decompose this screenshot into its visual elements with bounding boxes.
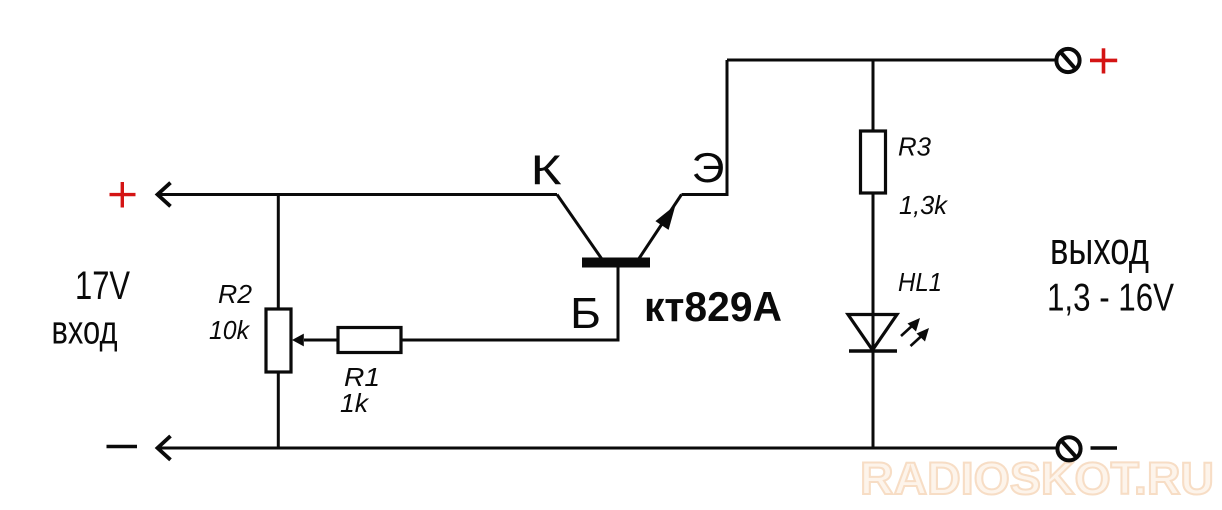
svg-text:Б: Б [570,289,601,338]
label - (output minus) [1091,446,1118,449]
wire: top rail to R2 [277,195,280,311]
label - (input minus) [107,445,138,448]
LED cathode bar [849,349,897,353]
wire: R3 through LED to bottom rail [872,193,875,448]
wire: R2 to bottom rail [277,372,280,448]
svg-text:RADIOSKOT.RU: RADIOSKOT.RU [860,453,1214,504]
bottom rail arrowhead [158,436,171,460]
LED light arrow 2 [911,328,930,346]
resistor R3 body [861,131,886,193]
wire: input + rail to collector [158,193,558,196]
svg-text:кт829А: кт829А [644,283,782,330]
collector wire [557,195,602,259]
svg-text:Э: Э [692,144,725,191]
svg-text:HL1: HL1 [898,267,942,297]
top rail wire [727,59,1056,62]
wire: emitter up to top rail [682,60,728,195]
transistor VT1 base bar [582,258,650,268]
terminal: output + screw [1056,49,1079,72]
potentiometer R2 body [266,309,291,372]
label + (input, red) [110,182,136,208]
svg-text:К: К [531,146,563,193]
wire: R1 to base [401,267,618,340]
svg-text:выход: выход [1050,223,1149,274]
svg-text:1,3 - 16V: 1,3 - 16V [1047,277,1174,320]
svg-text:1,3k: 1,3k [899,190,949,220]
bottom rail wire [158,447,1057,450]
resistor R1 body [338,328,401,353]
svg-text:вход: вход [52,309,118,353]
wire: top rail to R3 [872,60,875,132]
svg-text:R2: R2 [218,279,253,309]
svg-text:17V: 17V [75,264,130,308]
svg-text:R3: R3 [898,132,932,162]
LED HL1 triangle [848,315,897,351]
terminal: output - screw [1057,437,1080,460]
label + (output, red) [1090,48,1117,73]
input + arrowhead [158,183,171,207]
emitter arrowhead [655,205,675,230]
LED light arrow 1 [901,318,920,336]
emitter wire [639,195,682,259]
svg-text:1k: 1k [340,388,370,418]
svg-text:10k: 10k [209,315,251,345]
R2 wiper arrow [304,339,338,342]
